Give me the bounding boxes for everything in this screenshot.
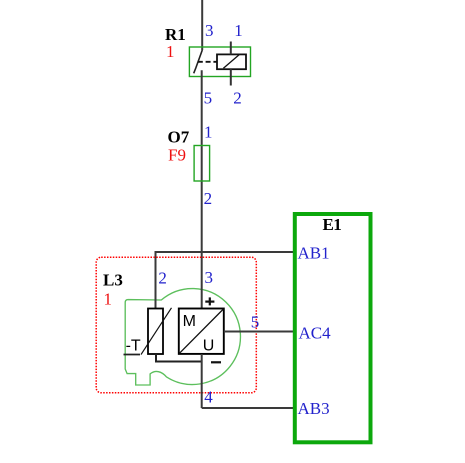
relay R1 coil box [217, 54, 246, 69]
wire: -T left stub [124, 354, 141, 356]
wire: horizontal to E1 terminal AB3 [202, 407, 296, 409]
svg-text:AB3: AB3 [298, 399, 330, 418]
wire: coil top lead (pin 1) [230, 42, 232, 55]
relay R1 contact blade (pins 3-5) [194, 50, 203, 73]
relay R1 outline box [189, 47, 250, 77]
wire: main vertical from relay pin 5 down through fuse to motor pin 3 [201, 70, 203, 308]
svg-text:AB1: AB1 [298, 244, 330, 263]
svg-text:1: 1 [104, 290, 113, 309]
wire: motor pin 4 down [201, 354, 203, 408]
plus sign [205, 297, 214, 305]
svg-text:L3: L3 [103, 271, 123, 290]
wire: branch down to thermistor pin 2 [155, 251, 157, 309]
svg-text:3: 3 [205, 21, 214, 40]
svg-text:4: 4 [204, 387, 213, 406]
wire: horizontal to E1 terminal AB1 [155, 251, 296, 253]
svg-text:-T: -T [126, 338, 141, 355]
dashed boundary box of L3 [96, 257, 256, 393]
svg-text:1: 1 [166, 42, 175, 61]
wire: bottom rail thermistor to motor lead [155, 361, 202, 363]
device E1 green box [295, 214, 371, 442]
svg-text:M: M [183, 313, 196, 330]
svg-text:3: 3 [205, 268, 214, 287]
minus sign [211, 361, 221, 363]
wire: thermistor bottom stub [155, 354, 157, 362]
wire: horizontal to E1 terminal AC4 (pin 5) [224, 331, 296, 333]
thermistor diagonal [141, 308, 172, 355]
svg-text:AC4: AC4 [299, 324, 332, 343]
converter diagonal [179, 309, 223, 353]
thermistor -T rectangle [148, 309, 163, 355]
svg-text:F9: F9 [168, 145, 186, 164]
fuse O7/F9 green box [194, 146, 210, 182]
relay R1 coil diagonal [223, 55, 239, 69]
svg-text:2: 2 [204, 189, 213, 208]
svg-text:5: 5 [204, 89, 213, 108]
svg-text:2: 2 [233, 89, 242, 108]
svg-text:2: 2 [158, 269, 167, 288]
svg-text:5: 5 [251, 313, 259, 332]
relay R1 dashed actuation link [198, 61, 217, 63]
svg-text:1: 1 [204, 123, 213, 142]
motor M/U converter square [179, 309, 224, 354]
svg-text:U: U [203, 338, 215, 355]
svg-text:E1: E1 [323, 215, 342, 234]
wire: incoming supply, top vertical [201, 0, 203, 50]
svg-text:1: 1 [234, 21, 243, 40]
svg-text:O7: O7 [168, 128, 190, 147]
motor body green outline [125, 289, 240, 385]
wire: coil bottom lead (pin 2) [230, 69, 232, 85]
